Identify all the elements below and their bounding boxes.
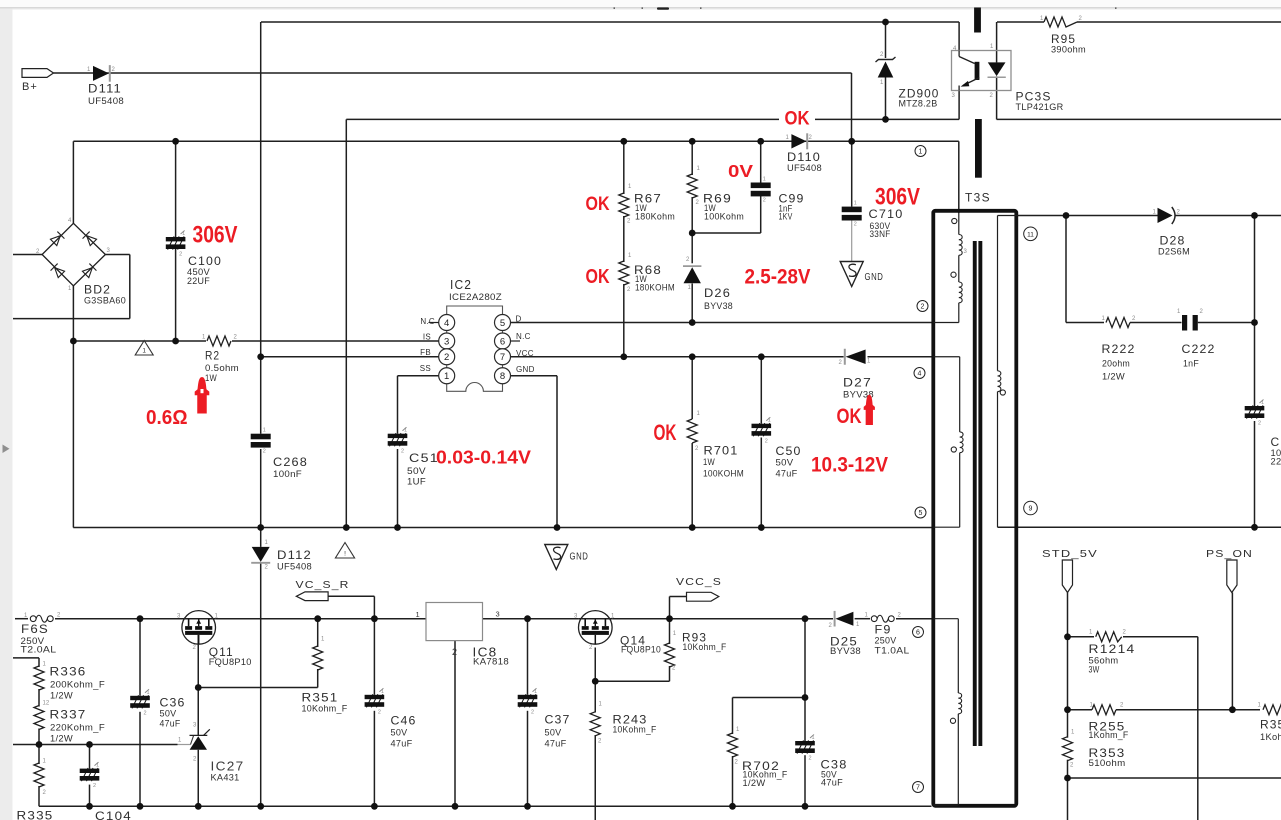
- wire Q14 to D25: [612, 618, 833, 620]
- wire HV bus to T3S pin1: [73, 140, 958, 142]
- wire VCC_S stub: [670, 596, 687, 598]
- wire PC3S pin4: [958, 22, 960, 51]
- wire Q14 gate net: [595, 680, 669, 682]
- svg-text:180KOHM: 180KOHM: [635, 283, 675, 293]
- wire D25 to F9: [855, 618, 870, 620]
- junction: [882, 19, 889, 26]
- wire IS net to IC2 pin3: [232, 340, 440, 342]
- wire PS_ON drop: [1231, 593, 1233, 710]
- junction: [452, 803, 459, 810]
- svg-text:1/2W: 1/2W: [743, 778, 766, 788]
- wire IC8 pin2 to rail: [454, 641, 456, 807]
- svg-text:22: 22: [1271, 457, 1281, 467]
- diode D28: [1158, 208, 1173, 223]
- svg-text:1: 1: [534, 689, 537, 695]
- node T3S pin 9: [1024, 501, 1038, 515]
- junction: [689, 138, 696, 145]
- wire Q11 to IC8: [216, 618, 426, 620]
- wire to R255: [1068, 709, 1093, 711]
- junction: [172, 138, 179, 145]
- svg-text:220Kohm_F: 220Kohm_F: [50, 723, 105, 733]
- svg-text:T3S: T3S: [965, 191, 991, 205]
- wire C38 to rail: [804, 755, 806, 806]
- wire cap to rail: [1254, 421, 1256, 528]
- wire PC3S pin2 to page edge: [997, 118, 1281, 120]
- svg-text:VC_S_R: VC_S_R: [296, 579, 350, 591]
- wire C710 to GND (grey): [851, 220, 853, 261]
- wire PC3S pin1 to R95: [997, 21, 1044, 23]
- svg-text:N.C: N.C: [420, 317, 435, 326]
- wire Q14 drain: [594, 648, 596, 713]
- svg-text:F6S: F6S: [21, 622, 49, 636]
- warning triangle 1: [135, 341, 153, 356]
- junction: [758, 524, 765, 531]
- capacitor C268: [251, 428, 271, 455]
- wire FB drop: [260, 22, 262, 357]
- svg-text:50V: 50V: [160, 709, 177, 719]
- svg-text:UF5408: UF5408: [88, 96, 124, 106]
- svg-text:1: 1: [142, 348, 146, 355]
- svg-text:4: 4: [444, 318, 449, 329]
- svg-text:BYV38: BYV38: [830, 646, 861, 656]
- svg-text:T1.0AL: T1.0AL: [875, 646, 910, 656]
- diode D111: [93, 66, 109, 81]
- wire R1214 return drop: [1197, 637, 1199, 820]
- svg-text:2: 2: [144, 710, 147, 716]
- svg-text:11: 11: [1027, 231, 1034, 238]
- svg-text:C222: C222: [1182, 342, 1216, 356]
- wire snubber drop: [1065, 216, 1067, 323]
- svg-text:1: 1: [768, 418, 771, 424]
- junction: [802, 615, 809, 622]
- resistor R1214: [1096, 632, 1122, 642]
- annotation red arrow 2: [864, 395, 875, 425]
- junction: [882, 116, 889, 123]
- wire IC27 ref grey tip: [178, 744, 191, 746]
- transistor Q14: [579, 611, 613, 645]
- junction: [36, 741, 43, 748]
- resistor R352 (clipped): [1263, 705, 1281, 715]
- wire AC in upper: [13, 254, 42, 256]
- svg-text:T2.0AL: T2.0AL: [21, 645, 57, 655]
- wire to C104: [89, 745, 91, 769]
- wire net ZD900-top / PC3S pin4: [261, 21, 959, 23]
- junction: [314, 615, 321, 622]
- resistor R95: [1044, 17, 1077, 27]
- wire IC2 GND drop: [556, 376, 558, 528]
- T3S secondary winding 11-9: [998, 216, 1019, 528]
- svg-text:C37: C37: [545, 713, 571, 727]
- junction: [666, 615, 673, 622]
- wire IS net left: [73, 340, 206, 342]
- svg-text:C36: C36: [160, 696, 186, 710]
- net flag B+: [22, 69, 54, 78]
- svg-text:200Kohm_F: 200Kohm_F: [50, 680, 105, 690]
- junction: [802, 803, 809, 810]
- ground GND: [840, 262, 863, 287]
- wire to C37: [527, 619, 529, 695]
- capacitor C222: [1182, 315, 1198, 331]
- wire VC_S_R link: [328, 595, 374, 597]
- svg-text:2: 2: [401, 448, 404, 454]
- junction: [172, 338, 179, 345]
- wire C99 pin2 up: [760, 196, 762, 233]
- junction: [592, 678, 599, 685]
- svg-text:FQU8P10: FQU8P10: [209, 657, 252, 667]
- svg-text:5: 5: [500, 318, 505, 329]
- wire to C38: [804, 698, 806, 742]
- svg-text:D28: D28: [1160, 234, 1186, 248]
- wire to D28: [1066, 215, 1158, 217]
- capacitor C38: [795, 735, 815, 762]
- junction: [137, 615, 144, 622]
- wire IC27 anode: [197, 750, 199, 807]
- wire loop left drop: [345, 119, 347, 527]
- warning triangle 2: [335, 543, 354, 559]
- wire R69 top: [691, 141, 693, 175]
- wire C46 to rail: [373, 711, 375, 807]
- svg-text:GND: GND: [516, 365, 535, 374]
- capacitor C37: [518, 688, 538, 715]
- junction: [689, 230, 696, 237]
- shunt regulator IC27 KA431: [178, 723, 210, 763]
- wire R222-C222: [1130, 322, 1182, 324]
- svg-text:2: 2: [854, 222, 857, 228]
- svg-text:VCC_S: VCC_S: [676, 576, 722, 588]
- junction: [729, 803, 736, 810]
- resistor R337: [34, 706, 44, 730]
- svg-text:2: 2: [263, 449, 266, 455]
- junction: [70, 338, 77, 345]
- svg-text:BYV38: BYV38: [704, 301, 733, 311]
- svg-text:PS_ON: PS_ON: [1206, 548, 1253, 560]
- wire F6S to Q11: [55, 618, 182, 620]
- net flag PS_ON: [1227, 560, 1237, 593]
- svg-text:3: 3: [444, 336, 449, 347]
- wire bottom return rail: [1068, 777, 1281, 779]
- svg-text:GND: GND: [570, 551, 589, 563]
- resistor R243: [590, 712, 600, 736]
- wire FB net to IC2 pin2: [261, 356, 440, 358]
- wire D net from IC2 pin5: [510, 322, 692, 324]
- wire PC3S pin1: [996, 22, 998, 62]
- junction: [394, 524, 401, 531]
- wire to R222: [1066, 322, 1104, 324]
- T3S primary winding: [933, 213, 967, 323]
- svg-text:!: !: [344, 551, 346, 558]
- svg-text:50V: 50V: [391, 728, 408, 738]
- svg-text:306V: 306V: [193, 222, 238, 249]
- resistor R702: [728, 733, 738, 757]
- svg-text:2: 2: [765, 438, 768, 444]
- junction: [195, 803, 202, 810]
- junction: [1064, 706, 1071, 713]
- svg-text:D111: D111: [88, 82, 122, 96]
- junction: [86, 803, 93, 810]
- svg-text:7: 7: [916, 785, 920, 792]
- svg-text:1: 1: [381, 689, 384, 695]
- wire IC2 GND pin: [510, 375, 557, 377]
- svg-text:2: 2: [179, 252, 182, 258]
- wire secondary return rail: [998, 526, 1281, 528]
- svg-text:0.6Ω: 0.6Ω: [146, 406, 188, 429]
- junction: [802, 694, 809, 701]
- svg-text:KA7818: KA7818: [473, 657, 509, 667]
- svg-text:FB: FB: [420, 348, 431, 357]
- resistor R2: [207, 336, 231, 346]
- svg-text:1Kohm_F: 1Kohm_F: [1089, 730, 1129, 740]
- wire IC27 ref net: [13, 744, 178, 746]
- svg-text:100Kohm: 100Kohm: [704, 212, 744, 222]
- capacitor C104: [80, 762, 100, 789]
- junction: [1064, 633, 1071, 640]
- svg-text:2.5-28V: 2.5-28V: [745, 264, 812, 288]
- svg-text:R351: R351: [302, 691, 339, 705]
- wire R336 feed: [13, 657, 39, 659]
- svg-text:C: C: [1271, 435, 1281, 449]
- net flag VCC_S: [687, 592, 719, 601]
- svg-text:6: 6: [916, 630, 920, 637]
- svg-text:D110: D110: [787, 150, 821, 164]
- svg-text:VCC: VCC: [516, 349, 534, 358]
- svg-text:R2: R2: [205, 349, 220, 363]
- capacitor C99: [751, 177, 771, 204]
- svg-text:5: 5: [919, 510, 923, 517]
- wire primary ground rail: [73, 527, 931, 529]
- svg-text:STD_5V: STD_5V: [1042, 548, 1098, 560]
- svg-text:MTZ8.2B: MTZ8.2B: [899, 99, 938, 109]
- wire R68 to VCC net: [623, 284, 625, 357]
- capacitor C46: [365, 688, 385, 715]
- wire ZD900 cathode: [885, 22, 887, 58]
- svg-text:33NF: 33NF: [870, 229, 891, 239]
- wire R67 top: [623, 141, 625, 194]
- annotation red arrow: [195, 377, 210, 414]
- junction: [371, 803, 378, 810]
- wire R353 top: [1067, 710, 1069, 738]
- junction: [524, 615, 531, 622]
- wire through Q11: [182, 618, 216, 620]
- wire R336 top: [38, 658, 40, 667]
- wire F6S pin1 stub: [15, 618, 28, 620]
- wire R701 top: [691, 357, 693, 419]
- wire R337 bottom: [38, 729, 40, 745]
- wire Q11 drain: [197, 635, 199, 688]
- T3S aux winding: [933, 357, 963, 527]
- wire AC loop right: [129, 255, 131, 319]
- wire R702 top: [732, 698, 734, 735]
- svg-text:1: 1: [854, 201, 857, 207]
- junction: [689, 524, 696, 531]
- svg-text:1: 1: [812, 735, 815, 741]
- wire R335 top: [38, 745, 40, 765]
- svg-text:2: 2: [452, 647, 457, 657]
- net flag STD_5V: [1062, 560, 1072, 593]
- node T3S pin 4: [914, 368, 925, 379]
- junction: [343, 524, 350, 531]
- svg-text:100KOHM: 100KOHM: [703, 469, 744, 479]
- svg-text:SS: SS: [420, 364, 431, 373]
- junction: [1251, 319, 1258, 326]
- svg-text:10Kohm_F: 10Kohm_F: [683, 642, 727, 652]
- wire C50 bottom: [760, 438, 762, 528]
- capacitor C100: [166, 231, 186, 258]
- svg-text:OK: OK: [837, 405, 862, 428]
- wire STD_5V lower: [1067, 637, 1069, 710]
- wire C268 to rail: [260, 449, 262, 528]
- zener diode ZD900: [876, 52, 896, 86]
- node T3S pin 11: [1024, 227, 1038, 241]
- svg-text:R336: R336: [50, 665, 87, 679]
- wire VCC_S drop: [669, 597, 671, 619]
- node T3S pin 2: [917, 301, 928, 312]
- wire to C36: [139, 619, 141, 696]
- svg-text:1: 1: [404, 428, 407, 434]
- capacitor C50: [752, 417, 772, 444]
- wire D net to T3S pin2: [692, 322, 931, 324]
- svg-text:UF5408: UF5408: [277, 562, 312, 572]
- wire rail to D112: [260, 528, 262, 547]
- svg-text:0.5ohm: 0.5ohm: [205, 363, 239, 373]
- svg-text:47uF: 47uF: [545, 739, 567, 749]
- resistor R69: [687, 174, 697, 198]
- svg-text:1/2W: 1/2W: [50, 734, 73, 744]
- transistor Q11: [182, 611, 216, 645]
- svg-text:1: 1: [416, 610, 420, 619]
- svg-text:R701: R701: [704, 444, 739, 458]
- wire F9 to T3S pin6: [896, 618, 933, 620]
- svg-text:10Kohm_F: 10Kohm_F: [613, 725, 657, 735]
- resistor R351: [313, 646, 323, 670]
- svg-text:IC2: IC2: [450, 277, 472, 292]
- diode D110: [779, 106, 815, 127]
- wire to C46: [373, 619, 375, 695]
- wire C222 to rail: [1198, 322, 1255, 324]
- wire IC8 pin3 to Q14: [483, 618, 579, 620]
- svg-text:0V: 0V: [728, 161, 753, 181]
- svg-text:2: 2: [809, 756, 812, 762]
- svg-text:1W: 1W: [205, 373, 217, 383]
- junction: [195, 684, 202, 691]
- wire to C100 pin1: [175, 141, 177, 237]
- svg-text:47uF: 47uF: [160, 719, 181, 729]
- svg-text:1: 1: [919, 149, 923, 156]
- wire C710 top: [851, 141, 853, 206]
- wire STD_5V drop: [1067, 593, 1069, 637]
- resistor R255: [1092, 705, 1116, 715]
- junction: [758, 353, 765, 360]
- junction: [689, 353, 696, 360]
- svg-text:8: 8: [500, 371, 505, 382]
- svg-text:1: 1: [147, 690, 150, 696]
- wire to R352: [1232, 709, 1260, 711]
- wire PC3S pin2: [996, 76, 998, 119]
- svg-text:GND: GND: [865, 271, 884, 283]
- junction: [689, 319, 696, 326]
- capacitor C (right edge, clipped): [1245, 400, 1265, 427]
- svg-text:1: 1: [96, 763, 99, 769]
- wire R95 pin2 to page edge: [1077, 21, 1281, 23]
- wire R93 top: [669, 619, 671, 644]
- svg-text:22UF: 22UF: [187, 276, 210, 286]
- op-amp / controller IC2 ICE2A280Z: [429, 306, 521, 391]
- diode D27: [846, 350, 866, 364]
- capacitor C36: [130, 689, 150, 716]
- wire SS to C51: [397, 376, 399, 434]
- svg-text:D2S6M: D2S6M: [1158, 247, 1190, 257]
- resistor R67: [619, 193, 629, 217]
- wire C104 to rail: [89, 785, 91, 807]
- svg-text:KA431: KA431: [211, 773, 240, 783]
- wire ZD900 anode: [885, 78, 887, 120]
- wire to R1214: [1068, 636, 1095, 638]
- net flag VC_S_R: [296, 592, 328, 601]
- capacitor C710: [842, 201, 862, 228]
- junction: [86, 741, 93, 748]
- junction: [1064, 775, 1071, 782]
- svg-text:B+: B+: [22, 81, 38, 93]
- svg-text:ICE2A280Z: ICE2A280Z: [449, 292, 502, 302]
- wire C36 to rail: [139, 712, 141, 807]
- wire to BD2 +: [72, 141, 74, 223]
- wire R351 bottom: [317, 669, 319, 688]
- junction: [1251, 524, 1258, 531]
- svg-text:1: 1: [763, 177, 766, 183]
- svg-text:390ohm: 390ohm: [1051, 45, 1086, 55]
- wire to C268: [260, 357, 262, 434]
- resistor R93: [665, 643, 675, 667]
- svg-text:1nF: 1nF: [1183, 359, 1199, 369]
- svg-text:1: 1: [444, 371, 449, 382]
- svg-text:N.C: N.C: [516, 332, 531, 341]
- node T3S pin 5: [915, 507, 926, 518]
- svg-text:C100: C100: [188, 254, 222, 268]
- wire C37 to rail: [527, 711, 529, 807]
- svg-text:0.03-0.14V: 0.03-0.14V: [436, 448, 531, 468]
- wire AC in lower: [13, 318, 130, 320]
- wire R93 bottom: [669, 666, 671, 681]
- wire R69 bottom: [691, 197, 693, 233]
- svg-text:OK: OK: [586, 193, 610, 215]
- diode D26: [684, 267, 701, 283]
- svg-text:6: 6: [500, 336, 505, 347]
- svg-text:C46: C46: [391, 714, 417, 728]
- svg-text:4: 4: [918, 371, 922, 378]
- wire R69-C99 link: [692, 232, 761, 234]
- junction: [620, 138, 627, 145]
- wire R243 down to edge: [594, 735, 596, 820]
- wire STD node to edge: [1067, 778, 1069, 820]
- svg-text:47uF: 47uF: [391, 739, 413, 749]
- svg-text:100nF: 100nF: [273, 469, 302, 479]
- resistor R353: [1063, 737, 1073, 761]
- junction: [554, 524, 561, 531]
- svg-text:OK: OK: [654, 420, 678, 445]
- svg-text:F9: F9: [875, 623, 892, 637]
- wire R351 top: [317, 619, 319, 647]
- wire C51 to rail: [397, 449, 399, 528]
- svg-text:C51: C51: [409, 451, 439, 465]
- wire R255 to PS_ON node: [1116, 709, 1232, 711]
- svg-text:1: 1: [182, 231, 185, 237]
- svg-text:2: 2: [1258, 421, 1261, 427]
- svg-text:1W: 1W: [703, 457, 715, 467]
- junction: [371, 615, 378, 622]
- svg-text:10Kohm_F: 10Kohm_F: [302, 704, 348, 714]
- wire IC27 cathode: [197, 688, 199, 736]
- svg-text:1: 1: [263, 428, 266, 434]
- svg-text:D112: D112: [277, 548, 312, 562]
